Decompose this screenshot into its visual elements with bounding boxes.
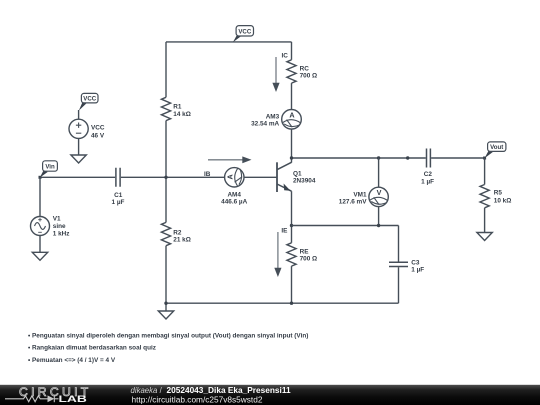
svg-text:A: A: [225, 174, 234, 179]
svg-text:700 Ω: 700 Ω: [300, 256, 318, 263]
capacitor C3: [389, 259, 424, 273]
footer url line: [132, 395, 263, 405]
resistor R1: [161, 97, 190, 120]
node collector junction: [290, 156, 293, 159]
note line 2: [28, 345, 156, 352]
svg-text:• Pemuatan <=> (4 / 1)V = 4 V: • Pemuatan <=> (4 / 1)V = 4 V: [28, 357, 116, 364]
flag Vout: [485, 142, 506, 158]
svg-text:A: A: [289, 110, 294, 119]
svg-text:14 kΩ: 14 kΩ: [173, 111, 191, 118]
svg-text:IE: IE: [281, 228, 288, 235]
wire C3 top lead: [398, 226, 400, 262]
ground below VCC: [71, 155, 86, 163]
node RE bottom rail junction: [290, 302, 293, 305]
flag Vin: [40, 161, 58, 178]
note line 1: [28, 332, 308, 339]
wire R5 bottom lead: [484, 208, 486, 233]
wire V1 top lead: [39, 177, 41, 216]
resistor RE: [287, 243, 317, 266]
wire VCC source top lead: [78, 110, 80, 119]
wire R5 top lead: [484, 158, 486, 185]
svg-text:C3: C3: [411, 259, 420, 266]
svg-text:sine: sine: [53, 223, 66, 230]
node emitter junction: [290, 224, 293, 227]
logo LAB wordmark: [59, 394, 87, 404]
note line 3: [28, 357, 116, 364]
capacitor C2: [421, 149, 434, 186]
node VM1 top junction: [377, 156, 380, 159]
svg-text:• Rangkaian dimuat berdasarkan: • Rangkaian dimuat berdasarkan soal quiz: [28, 345, 156, 352]
svg-text:VCC: VCC: [91, 125, 105, 132]
svg-text:20524043_Dika Eka_Presensi11: 20524043_Dika Eka_Presensi11: [167, 385, 291, 395]
wire VM1 bottom lead: [378, 207, 380, 226]
wire R1 column upper lead: [165, 42, 167, 97]
svg-text:1 kHz: 1 kHz: [53, 230, 70, 237]
svg-text:AM3: AM3: [266, 113, 280, 120]
svg-text:R1: R1: [173, 104, 182, 111]
svg-text:V1: V1: [53, 216, 61, 223]
wire R1 bottom to base node: [165, 121, 167, 178]
svg-text:32.54 mA: 32.54 mA: [251, 120, 279, 127]
node base divider junction: [164, 176, 167, 179]
ground below V1: [32, 252, 47, 260]
node Vin: [39, 176, 42, 179]
arrow IC current: [272, 57, 279, 92]
label IB: [204, 171, 211, 178]
wire emitter lead: [291, 191, 293, 243]
svg-text:Q1: Q1: [293, 171, 302, 178]
wire bottom rail: [166, 302, 399, 304]
flag VCC left: [79, 93, 98, 110]
svg-text:RC: RC: [300, 65, 310, 72]
svg-text:21 kΩ: 21 kΩ: [173, 236, 191, 243]
svg-text:1 µF: 1 µF: [112, 199, 125, 206]
svg-text:10 kΩ: 10 kΩ: [494, 198, 512, 205]
svg-text:R5: R5: [494, 190, 503, 197]
label IE: [281, 228, 288, 235]
footer author line: [131, 385, 291, 395]
svg-text:1 µF: 1 µF: [421, 179, 434, 186]
wire RE bottom lead: [291, 266, 293, 303]
svg-text:dikaeka: dikaeka: [131, 386, 159, 395]
arrow IE current: [274, 232, 281, 277]
ammeter AM3: [251, 110, 301, 130]
svg-text:• Penguatan sinyal diperoleh d: • Penguatan sinyal diperoleh dengan memb…: [28, 332, 308, 339]
wire collector lead: [291, 129, 293, 163]
wire main input rail: [40, 176, 277, 178]
svg-text:2N3904: 2N3904: [293, 178, 316, 185]
svg-text:IC: IC: [281, 52, 288, 59]
resistor R5: [480, 185, 511, 208]
node wire joint before C2: [406, 156, 409, 159]
svg-text:V: V: [377, 188, 382, 197]
svg-text:RE: RE: [300, 249, 310, 256]
wire collector rail to C2: [292, 157, 485, 159]
wire emitter rail to C3: [292, 225, 399, 227]
source VCC 46V: [69, 119, 105, 139]
svg-text:46 V: 46 V: [91, 132, 105, 139]
svg-text:C2: C2: [424, 171, 433, 178]
ammeter AM4: [221, 168, 247, 206]
transistor Q1 2N3904: [277, 162, 316, 192]
svg-text:VCC: VCC: [83, 96, 96, 103]
source V1 sine: [31, 216, 70, 238]
ground below R2: [158, 303, 173, 319]
svg-text:LAB: LAB: [59, 394, 87, 404]
node Vout: [483, 157, 486, 160]
svg-text:Vin: Vin: [45, 164, 55, 171]
wire top rail from R1 to RC: [166, 41, 292, 43]
flag VCC top: [233, 26, 254, 43]
svg-text:IB: IB: [204, 171, 211, 178]
arrow IB current: [208, 156, 252, 163]
logo CIRCUIT wordmark: [19, 385, 92, 399]
svg-text:127.6 mV: 127.6 mV: [339, 198, 367, 205]
svg-text:R2: R2: [173, 229, 182, 236]
svg-text:700 Ω: 700 Ω: [300, 72, 318, 79]
wire RC bottom lead: [291, 83, 293, 109]
footer bar: [0, 385, 540, 405]
svg-text:VCC: VCC: [238, 28, 251, 35]
wire VCC source bottom lead: [78, 138, 80, 155]
label IC: [281, 52, 288, 59]
node R2 bottom rail junction: [164, 302, 167, 305]
svg-text:Vout: Vout: [490, 144, 503, 151]
logo resistor-diode line: [5, 395, 59, 402]
wire VM1 top lead: [378, 158, 380, 187]
voltmeter VM1: [339, 187, 389, 206]
svg-text:AM4: AM4: [227, 191, 241, 198]
ground below R5: [477, 233, 492, 241]
resistor RC: [287, 60, 317, 83]
capacitor C1: [112, 168, 125, 206]
node VM1 bottom junction: [377, 224, 380, 227]
resistor R2: [161, 222, 190, 245]
svg-text:446.6 µA: 446.6 µA: [221, 198, 247, 205]
wire V1 bottom lead: [39, 236, 41, 253]
wire C3 bottom lead: [398, 267, 400, 303]
svg-text:http://circuitlab.com/c257v8s5: http://circuitlab.com/c257v8s5wstd2: [132, 395, 263, 405]
svg-text:1 µF: 1 µF: [411, 266, 424, 273]
wire R2 top lead: [165, 177, 167, 222]
wire RC top lead: [291, 42, 293, 60]
wire R2 bottom lead: [165, 246, 167, 304]
